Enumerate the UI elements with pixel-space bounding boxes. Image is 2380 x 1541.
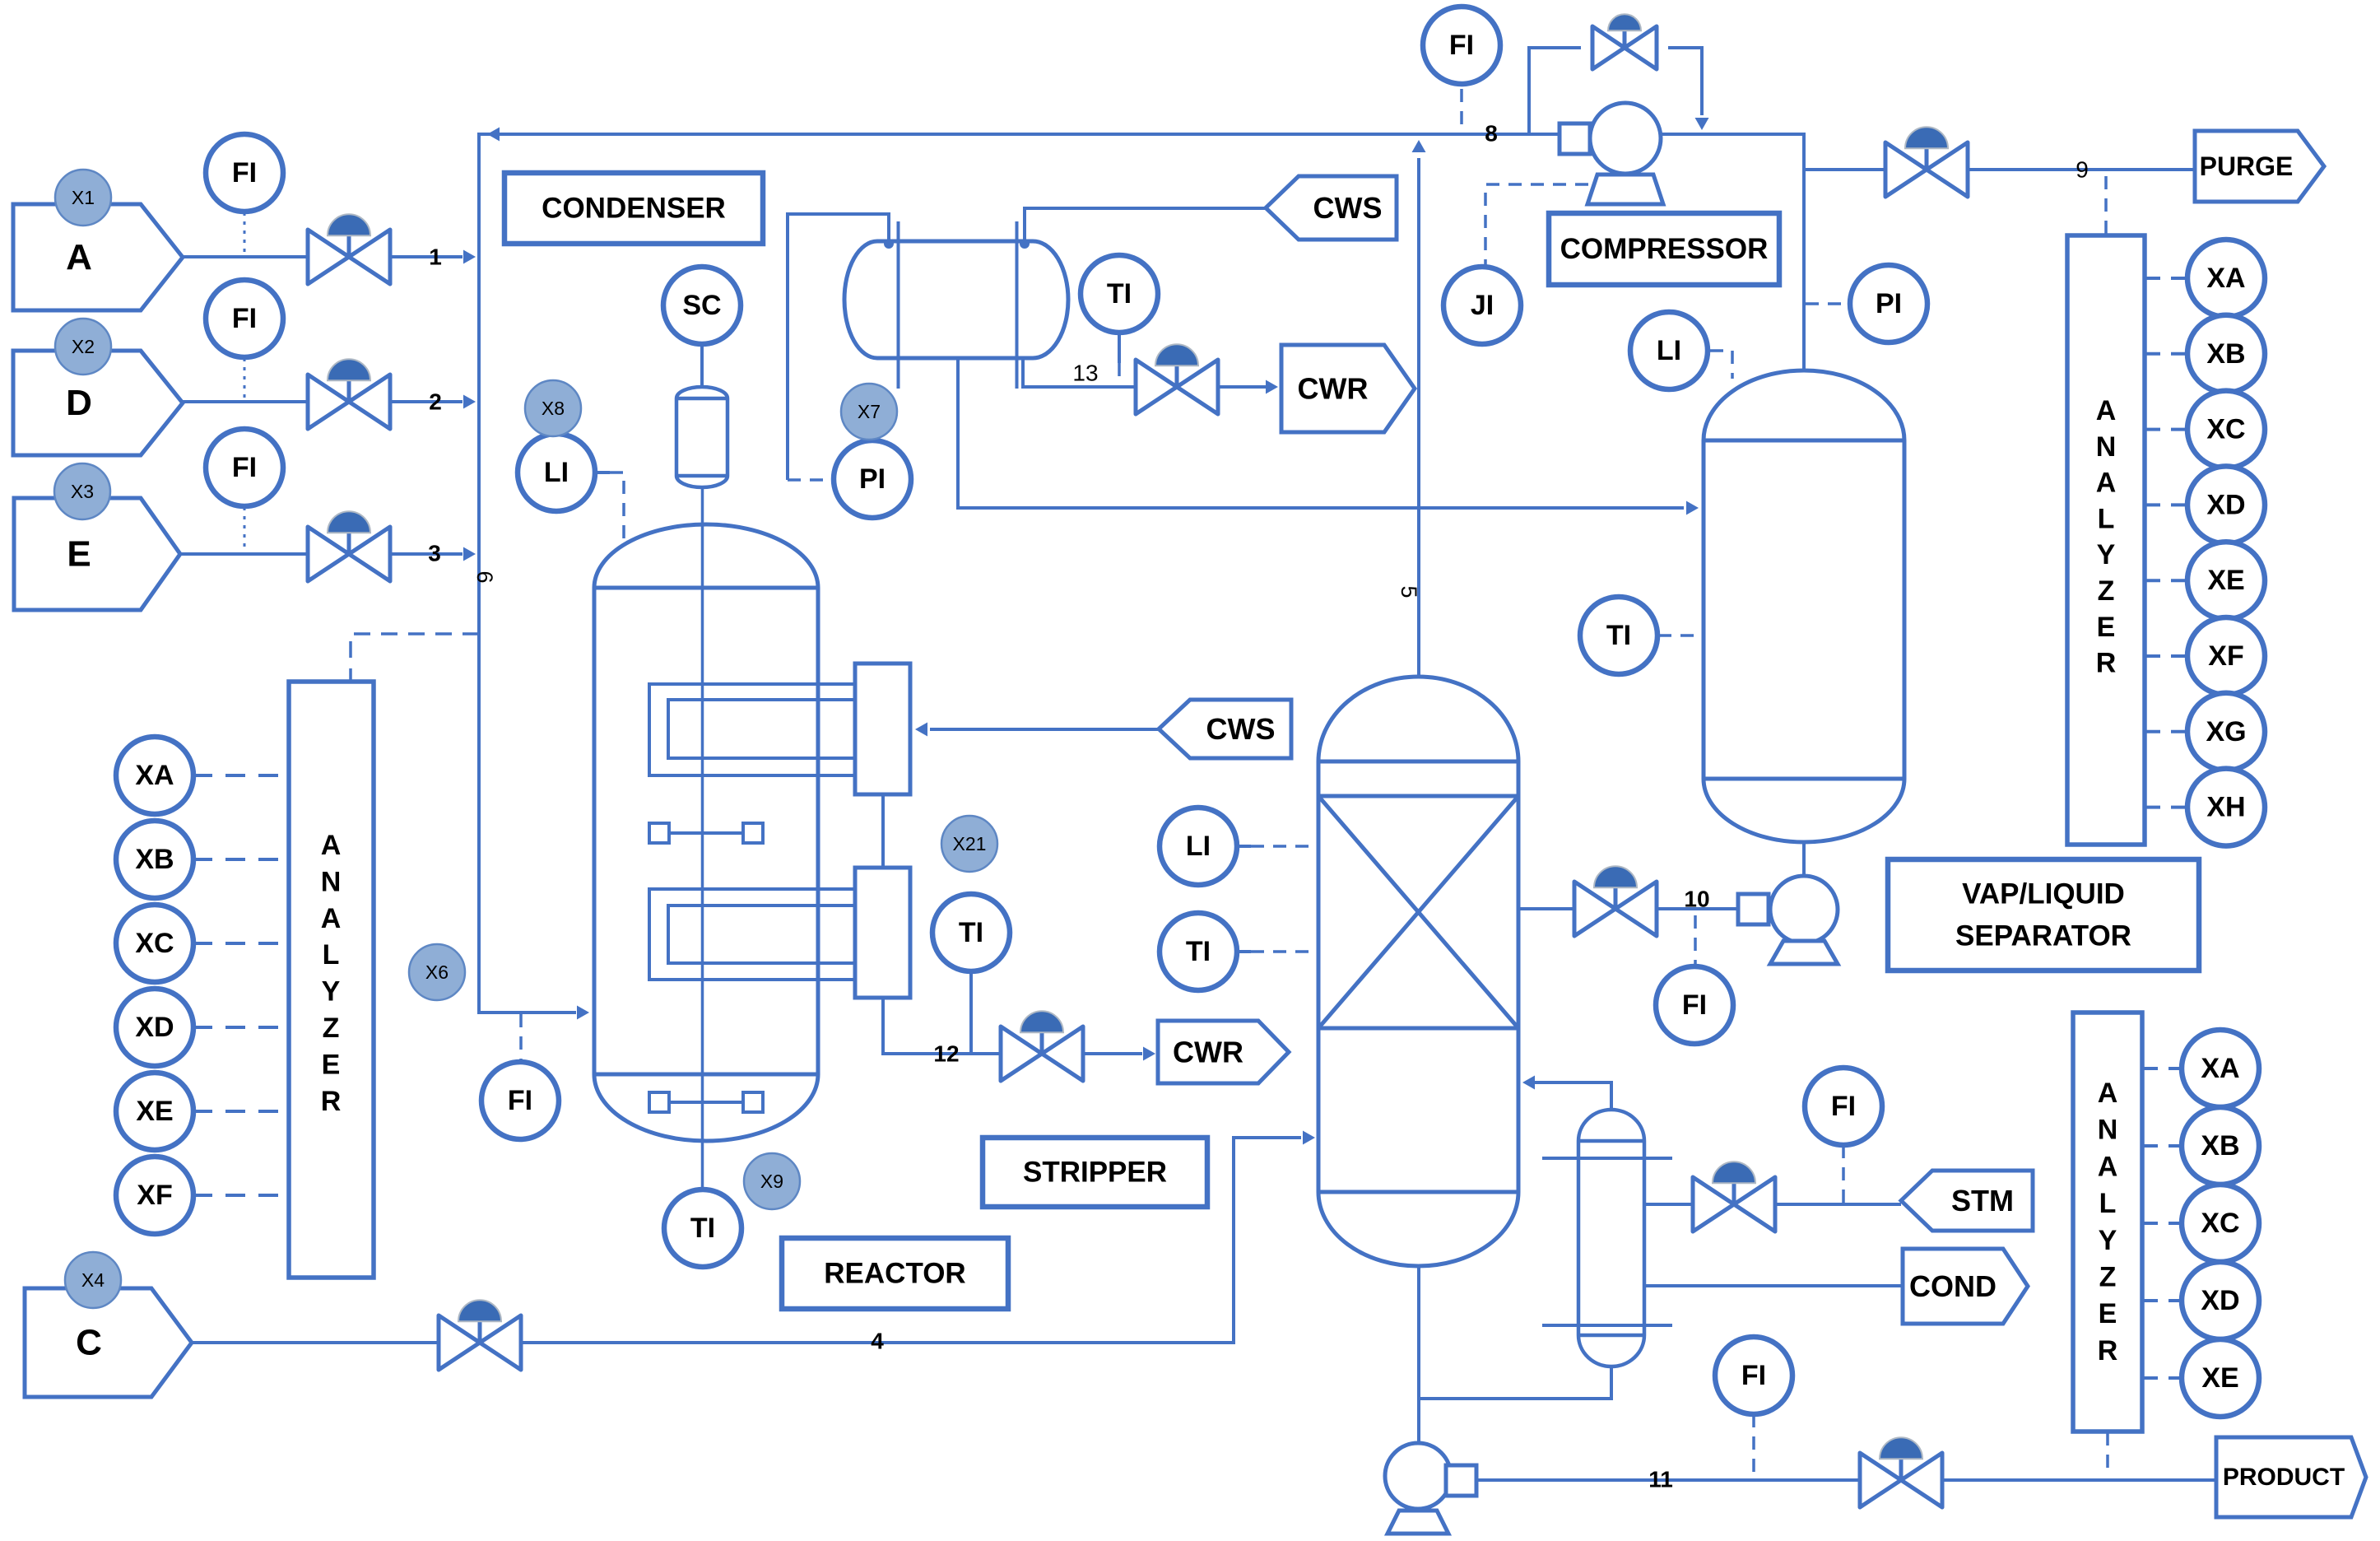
svg-text:X9: X9: [760, 1171, 783, 1192]
svg-text:XA: XA: [2201, 1053, 2239, 1084]
svg-text:XA: XA: [2206, 263, 2245, 294]
svg-text:XE: XE: [2201, 1362, 2238, 1394]
svg-text:XC: XC: [2206, 414, 2245, 445]
svg-text:Y: Y: [2099, 1225, 2117, 1256]
svg-text:COMPRESSOR: COMPRESSOR: [1560, 233, 1769, 265]
svg-text:CWS: CWS: [1313, 191, 1383, 225]
svg-text:E: E: [322, 1049, 341, 1080]
svg-text:L: L: [2099, 1188, 2117, 1219]
svg-text:XA: XA: [135, 760, 174, 791]
svg-text:N: N: [2098, 1115, 2118, 1146]
svg-text:XH: XH: [2206, 792, 2245, 823]
svg-text:XE: XE: [136, 1096, 173, 1127]
svg-text:X4: X4: [81, 1269, 105, 1291]
svg-text:FI: FI: [1682, 989, 1707, 1021]
svg-text:X6: X6: [425, 961, 449, 983]
svg-text:A: A: [2098, 1078, 2118, 1109]
svg-text:N: N: [2096, 431, 2117, 463]
svg-text:XF: XF: [137, 1180, 172, 1211]
svg-text:XB: XB: [135, 844, 174, 875]
svg-text:X7: X7: [858, 401, 881, 422]
svg-text:LI: LI: [544, 457, 569, 488]
svg-text:Z: Z: [2098, 575, 2115, 607]
svg-text:A: A: [2098, 1151, 2118, 1182]
svg-text:X21: X21: [953, 833, 987, 854]
svg-text:10: 10: [1684, 887, 1709, 912]
svg-text:XC: XC: [2201, 1208, 2239, 1239]
svg-text:3: 3: [428, 541, 441, 566]
svg-text:X3: X3: [71, 481, 94, 502]
svg-text:C: C: [76, 1323, 102, 1363]
svg-text:FI: FI: [508, 1085, 532, 1116]
svg-text:XD: XD: [135, 1012, 174, 1043]
svg-text:COND: COND: [1909, 1269, 1997, 1303]
svg-text:E: E: [67, 534, 91, 575]
svg-text:CWS: CWS: [1206, 712, 1276, 746]
svg-text:CWR: CWR: [1298, 372, 1369, 406]
svg-text:6: 6: [472, 570, 497, 583]
svg-text:XB: XB: [2206, 338, 2245, 370]
svg-text:X1: X1: [72, 187, 95, 208]
svg-text:FI: FI: [1449, 30, 1474, 61]
svg-text:D: D: [66, 383, 92, 423]
svg-text:A: A: [2096, 468, 2117, 499]
svg-text:PURGE: PURGE: [2200, 151, 2294, 181]
svg-text:Z: Z: [323, 1013, 340, 1044]
svg-text:Y: Y: [322, 976, 341, 1008]
svg-text:R: R: [321, 1086, 342, 1117]
svg-text:A: A: [2096, 395, 2117, 426]
svg-text:TI: TI: [690, 1213, 715, 1244]
svg-text:FI: FI: [1741, 1360, 1766, 1391]
svg-text:4: 4: [871, 1329, 884, 1354]
svg-text:JI: JI: [1471, 290, 1494, 321]
svg-text:XD: XD: [2201, 1285, 2239, 1316]
svg-text:5: 5: [1397, 585, 1421, 598]
svg-text:CWR: CWR: [1173, 1036, 1243, 1069]
svg-text:11: 11: [1648, 1467, 1673, 1492]
svg-text:XB: XB: [2201, 1130, 2239, 1162]
svg-text:2: 2: [429, 389, 442, 415]
svg-text:VAP/LIQUID: VAP/LIQUID: [1962, 878, 2125, 910]
svg-text:TI: TI: [1606, 620, 1631, 651]
svg-text:REACTOR: REACTOR: [824, 1258, 965, 1290]
svg-text:FI: FI: [232, 452, 257, 483]
svg-text:SC: SC: [682, 290, 721, 321]
svg-text:Y: Y: [2097, 539, 2116, 570]
svg-text:E: E: [2097, 612, 2116, 643]
svg-text:STM: STM: [1951, 1184, 2014, 1217]
svg-text:PRODUCT: PRODUCT: [2223, 1464, 2345, 1491]
svg-text:STRIPPER: STRIPPER: [1023, 1157, 1167, 1189]
svg-text:XF: XF: [2208, 640, 2243, 672]
svg-text:X2: X2: [72, 336, 95, 357]
svg-text:13: 13: [1072, 361, 1098, 386]
svg-text:FI: FI: [1831, 1091, 1856, 1122]
svg-text:SEPARATOR: SEPARATOR: [1955, 919, 2131, 952]
svg-text:TI: TI: [1107, 278, 1132, 310]
svg-text:PI: PI: [859, 463, 886, 495]
svg-text:A: A: [321, 903, 342, 934]
svg-text:12: 12: [933, 1041, 959, 1067]
svg-text:XG: XG: [2206, 716, 2246, 747]
svg-text:CONDENSER: CONDENSER: [542, 193, 726, 225]
svg-text:A: A: [321, 830, 342, 861]
svg-text:8: 8: [1485, 121, 1498, 147]
svg-text:E: E: [2099, 1298, 2117, 1329]
svg-text:X8: X8: [542, 398, 565, 419]
svg-text:FI: FI: [232, 157, 257, 189]
svg-text:R: R: [2098, 1335, 2118, 1366]
svg-text:XD: XD: [2206, 489, 2245, 520]
svg-text:L: L: [323, 939, 340, 971]
svg-text:9: 9: [2076, 157, 2089, 183]
svg-text:N: N: [321, 866, 342, 897]
svg-text:1: 1: [429, 244, 442, 270]
svg-text:TI: TI: [959, 917, 983, 948]
svg-text:TI: TI: [1186, 936, 1211, 967]
svg-text:Z: Z: [2099, 1262, 2117, 1293]
svg-text:XE: XE: [2207, 565, 2244, 596]
svg-text:FI: FI: [232, 303, 257, 334]
svg-text:PI: PI: [1876, 288, 1902, 319]
svg-text:R: R: [2096, 648, 2117, 679]
svg-text:LI: LI: [1657, 335, 1681, 366]
svg-text:A: A: [66, 237, 92, 277]
svg-text:XC: XC: [135, 928, 174, 959]
svg-text:L: L: [2098, 503, 2115, 534]
svg-text:LI: LI: [1186, 831, 1211, 862]
